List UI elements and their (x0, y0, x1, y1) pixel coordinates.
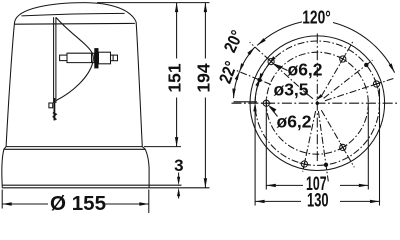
extension lines 107 (265, 108, 267, 190)
dome right edge (136, 22, 142, 147)
center point (316, 102, 319, 105)
beacon dome cap arc (15, 3, 136, 22)
horizontal centerline (232, 102, 398, 104)
reflector holder stem (53, 98, 55, 120)
svg-text:3: 3 (174, 156, 183, 175)
radial centerline 18 deg (325, 78, 395, 101)
bolt circle diameter 130 (dash-dot) (255, 41, 379, 165)
svg-text:ø3,5: ø3,5 (274, 80, 309, 100)
dimension arc 120 deg (257, 22, 302, 46)
dimension line diameter 155 (2, 203, 48, 205)
base right edge (142, 147, 149, 188)
leader for upper hole label (275, 64, 288, 70)
radial centerline 38 deg (324, 60, 373, 98)
dimension line 151 (176, 3, 178, 59)
radial centerline 60 deg (321, 40, 354, 96)
dome cap seam far edge (22, 13, 125, 16)
svg-text:194: 194 (193, 63, 213, 92)
mounting hole at 300 deg (339, 143, 348, 152)
dimension arc 20 deg inner (along bolt circle) (261, 64, 269, 77)
dimension arc 22 deg outer (234, 72, 240, 98)
bulb tip inner line (112, 55, 114, 61)
radial centerline 300 deg (321, 110, 354, 167)
extension line at base seam (144, 146, 181, 148)
reflector rim outer line (53, 17, 55, 103)
dimension line 130 (255, 200, 301, 202)
svg-text:Ø 155: Ø 155 (50, 193, 106, 213)
base plate top line (2, 184, 181, 186)
svg-text:130: 130 (307, 190, 329, 211)
svg-text:ø6,2: ø6,2 (288, 60, 323, 80)
bulb flange (filled) (94, 48, 98, 68)
base left edge (2, 147, 6, 188)
dimension 3 arrows (178, 173, 180, 180)
bulb tip (111, 55, 118, 61)
bulb base body (67, 53, 92, 62)
dimension line 107 (266, 184, 303, 186)
dimension line 194 (204, 3, 206, 59)
vertical centerline (316, 34, 318, 163)
extension line left of circle (234, 101, 258, 103)
radial centerline 278 deg (318, 111, 328, 181)
reflector rim inner line (55, 17, 57, 103)
base plate bottom line (2, 187, 209, 189)
svg-text:120°: 120° (302, 7, 331, 28)
mounting hole at 18 deg (372, 79, 382, 89)
bulb glass body (99, 52, 111, 64)
leader for center hole label (307, 94, 313, 99)
dome cap seam near edge (15, 22, 135, 25)
leader for lower hole label (270, 107, 278, 117)
dome left edge (6, 22, 15, 147)
radial centerline 138 deg (250, 42, 309, 95)
base seam lower line (4, 148, 145, 150)
dome outline circle (bottom view) (250, 36, 385, 171)
diameter 155 extension lines (1, 190, 3, 209)
mounting hole at 180 deg (261, 98, 271, 108)
index dot 278 deg (324, 163, 328, 167)
extension lines 130 (254, 106, 256, 206)
dimension arc 22 deg inner (along bolt circle) (255, 82, 259, 102)
mounting hole at 258 deg (300, 159, 310, 169)
bulb neck (92, 53, 95, 62)
mounting hole at 60 deg (339, 55, 348, 64)
bolt circle diameter 107 (dash-dot) (266, 52, 368, 154)
dimension arc 20 deg outer (239, 47, 255, 72)
top extension line (97, 2, 210, 4)
reflector bottom tab (49, 103, 53, 108)
index dot 38 deg (364, 63, 368, 67)
svg-text:ø6,2: ø6,2 (277, 112, 312, 132)
svg-text:151: 151 (165, 63, 185, 92)
index dot 158 deg (257, 78, 261, 82)
mounting hole at 138 deg (267, 58, 274, 65)
radial centerline 258 deg (303, 111, 316, 172)
reflector parabola (56, 18, 94, 101)
base seam upper line (6, 146, 143, 148)
holder clip mark (53, 113, 57, 120)
bulb contact pin (60, 55, 67, 61)
radial centerline 158 deg (236, 70, 271, 84)
